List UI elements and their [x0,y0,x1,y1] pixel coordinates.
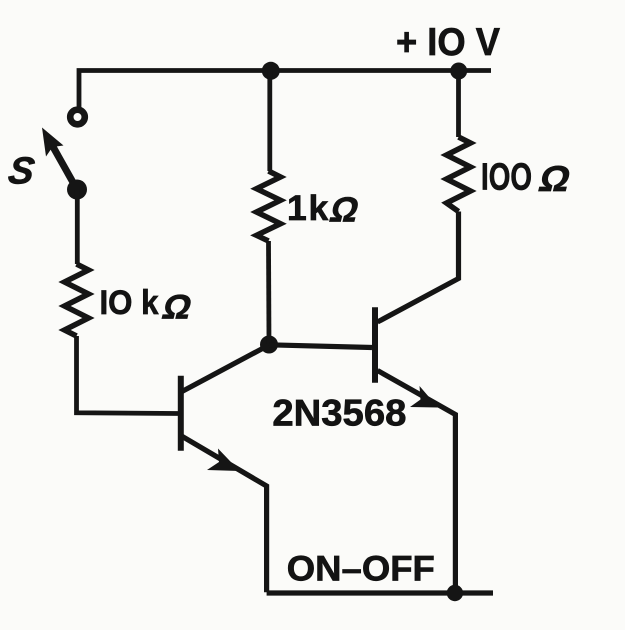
svg-text:+ IO V: + IO V [396,21,500,64]
svg-text:IO k: IO k [100,284,159,322]
svg-text:IOO: IOO [481,157,532,199]
svg-text:k: k [309,188,329,228]
svg-text:1: 1 [287,188,307,228]
svg-text:2N3568: 2N3568 [272,392,406,434]
svg-text:ON–OFF: ON–OFF [287,549,435,589]
